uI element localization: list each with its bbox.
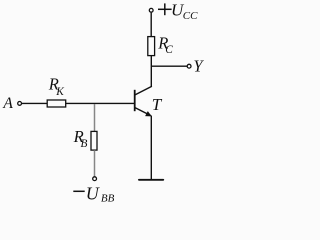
svg-text:B: B — [81, 138, 88, 150]
svg-text:T: T — [152, 95, 163, 114]
svg-text:BB: BB — [101, 193, 115, 205]
svg-text:C: C — [165, 44, 173, 56]
svg-text:Y: Y — [193, 56, 204, 75]
svg-text:A: A — [2, 95, 13, 112]
svg-text:CC: CC — [183, 10, 198, 22]
svg-text:U: U — [86, 184, 100, 204]
svg-text:K: K — [55, 86, 65, 98]
